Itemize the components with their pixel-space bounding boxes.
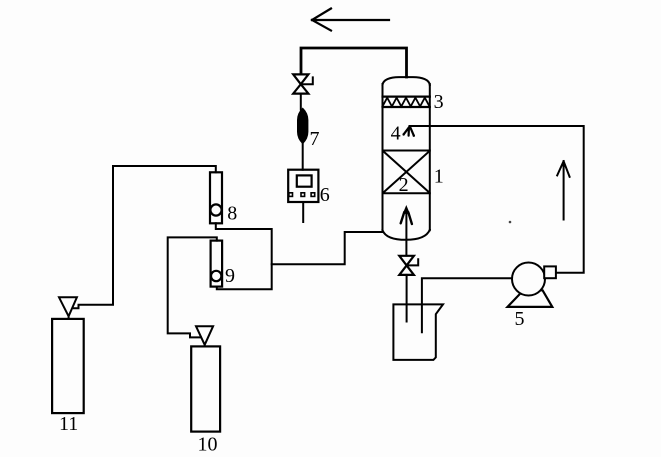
svg-text:2: 2 [399, 174, 409, 196]
svg-text:11: 11 [59, 413, 78, 435]
svg-text:8: 8 [227, 202, 237, 224]
svg-text:9: 9 [225, 265, 235, 287]
svg-text:4: 4 [391, 123, 401, 145]
svg-text:1: 1 [434, 166, 444, 188]
svg-text:6: 6 [320, 184, 330, 206]
svg-text:7: 7 [310, 128, 320, 150]
svg-text:5: 5 [515, 308, 525, 330]
svg-text:3: 3 [434, 91, 444, 113]
svg-text:10: 10 [198, 433, 218, 455]
